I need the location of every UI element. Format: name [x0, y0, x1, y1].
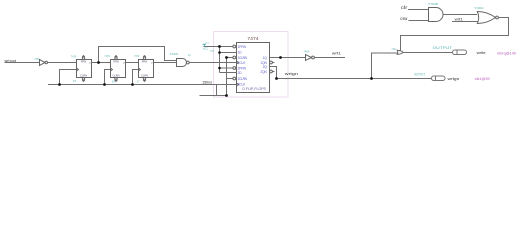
svg-text:OUTPUT: OUTPUT — [414, 72, 425, 76]
svg-text:7408: 7408 — [428, 2, 439, 6]
svg-text:D FLIP-FLOPS: D FLIP-FLOPS — [242, 87, 266, 91]
svg-text:write: write — [477, 51, 486, 55]
svg-text:2CLK: 2CLK — [238, 83, 247, 87]
svg-text:wrtgn: wrtgn — [448, 76, 460, 81]
svg-text:1D: 1D — [238, 51, 243, 55]
svg-text:15: 15 — [73, 79, 76, 83]
svg-text:OUTPUT: OUTPUT — [433, 45, 453, 50]
svg-text:2PRN: 2PRN — [238, 66, 247, 70]
svg-text:7474: 7474 — [247, 36, 259, 41]
svg-text:Q: Q — [123, 63, 125, 65]
svg-text:1CLK: 1CLK — [238, 61, 247, 65]
svg-text:7402: 7402 — [474, 6, 484, 10]
svg-text:1Q: 1Q — [263, 56, 268, 60]
svg-text:747: 747 — [210, 50, 215, 53]
svg-text:mbrq@140: mbrq@140 — [497, 51, 516, 55]
svg-text:clr: clr — [401, 5, 408, 10]
svg-text:16: 16 — [112, 79, 115, 83]
svg-text:7400: 7400 — [169, 52, 178, 56]
svg-text:wrhout: wrhout — [5, 59, 17, 63]
svg-text:2D: 2D — [238, 71, 243, 75]
svg-text:7404: 7404 — [34, 57, 39, 61]
svg-text:wrt1: wrt1 — [455, 18, 463, 22]
svg-text:PRN: PRN — [81, 59, 87, 63]
svg-text:7404: 7404 — [303, 49, 309, 53]
svg-text:Q: Q — [89, 63, 91, 65]
svg-text:7432: 7432 — [392, 47, 396, 51]
svg-text:150ns: 150ns — [202, 81, 212, 85]
svg-text:2QN: 2QN — [260, 70, 267, 74]
svg-text:csw: csw — [400, 16, 407, 21]
svg-text:wrt1: wrt1 — [332, 51, 342, 56]
svg-text:Q: Q — [151, 63, 153, 65]
svg-text:2Q: 2Q — [263, 65, 268, 69]
svg-text:PRN: PRN — [142, 59, 148, 63]
svg-text:1PRN: 1PRN — [238, 45, 247, 49]
svg-text:CLRN: CLRN — [112, 74, 119, 78]
svg-text:clk1@39: clk1@39 — [475, 77, 490, 81]
svg-text:VCC: VCC — [205, 42, 210, 44]
svg-text:7476: 7476 — [71, 55, 77, 59]
svg-text:1CLRN: 1CLRN — [238, 56, 248, 60]
svg-text:VCC: VCC — [203, 47, 209, 51]
svg-text:PRN: PRN — [113, 59, 119, 63]
svg-text:7476: 7476 — [104, 54, 110, 58]
svg-text:CLRN: CLRN — [141, 74, 148, 78]
svg-text:17: 17 — [137, 79, 140, 83]
svg-text:2CLRN: 2CLRN — [238, 77, 248, 81]
svg-text:wrtgn: wrtgn — [285, 72, 298, 76]
svg-text:7476: 7476 — [134, 54, 139, 58]
svg-text:CLRN: CLRN — [80, 74, 87, 78]
